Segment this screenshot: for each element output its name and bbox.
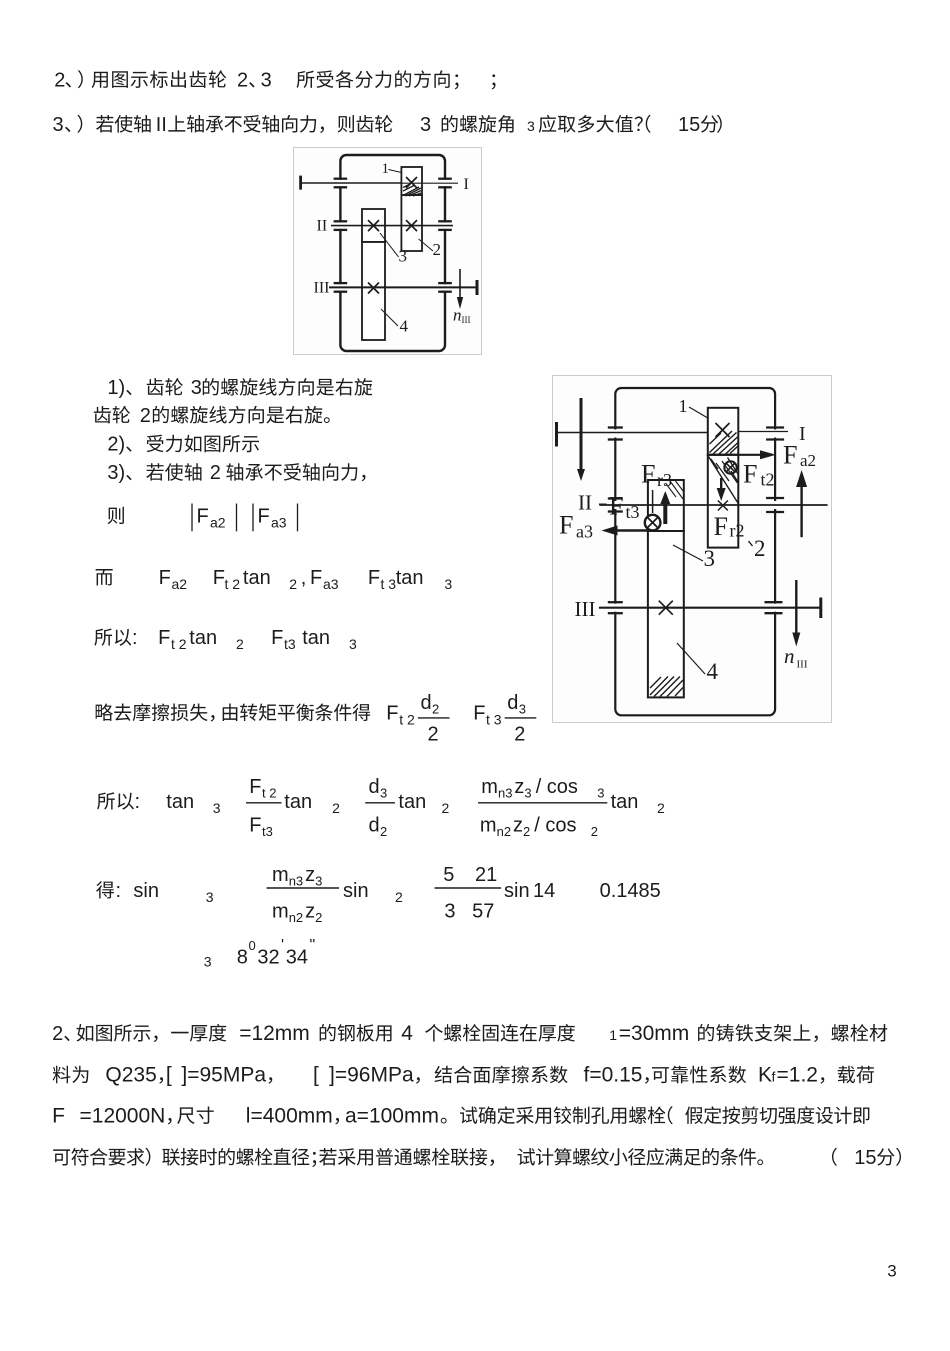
svg-text:3: 3 (349, 636, 357, 652)
svg-text:": " (310, 937, 316, 954)
shaft III right end bar (diagram 1) (476, 280, 479, 295)
bearing shaft I left (diagram 1) (334, 178, 348, 180)
svg-text:tan: tan (243, 567, 271, 589)
gear 2 shear diagonal (diagram 2) (709, 457, 739, 504)
gear 1 hatching (403, 187, 419, 196)
svg-text:2: 2 (140, 405, 151, 427)
svg-text:[: [ (313, 1064, 319, 1087)
shaft II (diagram 2) (600, 504, 828, 506)
svg-text:a2: a2 (210, 515, 226, 531)
gear 3 cross mark (368, 220, 379, 231)
svg-text:3: 3 (444, 901, 455, 923)
svg-text:]=95MPa: ]=95MPa (181, 1064, 266, 1087)
svg-text:3: 3 (597, 786, 604, 801)
svg-text:F: F (258, 506, 270, 528)
svg-text:III: III (462, 315, 471, 325)
svg-text:I: I (799, 423, 806, 445)
svg-text:2: 2 (380, 824, 387, 839)
svg-text:F: F (310, 567, 322, 589)
svg-text:F: F (386, 703, 398, 725)
text line: question 2) (54, 69, 65, 91)
gear 1 hatching (diagram 2) (710, 431, 733, 453)
gear 1 (diagram 1) (401, 167, 422, 195)
svg-text:4: 4 (400, 317, 409, 336)
svg-text:r2: r2 (730, 521, 745, 541)
svg-text:3: 3 (53, 114, 64, 136)
text: answer 2) line (107, 434, 131, 456)
bearing shaft II left (diagram 1) (334, 220, 348, 222)
svg-text:0.1485: 0.1485 (600, 880, 661, 902)
gear 4 hatching (diagram 2) (650, 677, 668, 696)
svg-text:t2: t2 (761, 470, 775, 490)
svg-text:z: z (513, 814, 523, 836)
svg-text:m: m (481, 776, 498, 798)
svg-text:2: 2 (754, 536, 766, 561)
svg-text:34: 34 (286, 946, 308, 968)
svg-text:F: F (213, 567, 225, 589)
svg-text:/ cos: / cos (534, 814, 576, 836)
svg-text:2: 2 (210, 462, 221, 484)
svg-text:d: d (369, 814, 380, 836)
svg-text:3: 3 (204, 954, 212, 970)
svg-text:f: f (772, 1069, 776, 1085)
svg-text:2: 2 (395, 889, 403, 905)
svg-text:t3: t3 (284, 636, 296, 652)
svg-text:2: 2 (289, 576, 297, 592)
svg-text:n: n (784, 644, 795, 668)
svg-text:t3: t3 (626, 502, 640, 522)
svg-text:=12000N: =12000N (80, 1104, 166, 1127)
axial force arrow Fa2 (diagram 2) (708, 454, 772, 456)
svg-text:=30mm: =30mm (619, 1022, 690, 1045)
gearbox housing (diagram 2) (615, 388, 775, 715)
svg-text:8: 8 (237, 946, 248, 968)
svg-text:2: 2 (332, 800, 340, 816)
svg-text:1: 1 (382, 161, 390, 177)
svg-text:1: 1 (609, 1027, 617, 1043)
input force arrow on shaft I (diagram 2) (580, 398, 583, 470)
svg-text:3: 3 (704, 546, 716, 571)
svg-text:z: z (305, 864, 315, 886)
svg-text:I: I (464, 176, 469, 193)
svg-text:4: 4 (707, 659, 719, 684)
svg-text:F: F (271, 627, 283, 649)
gear 4 cross mark (diagram 2) (659, 601, 673, 615)
svg-text:3): 3) (107, 462, 125, 484)
gear 1 cross mark (406, 177, 417, 188)
svg-text:tan: tan (398, 791, 426, 813)
svg-text:F: F (159, 567, 171, 589)
svg-text:3: 3 (399, 247, 408, 266)
svg-text:II: II (317, 218, 328, 235)
svg-text:a2: a2 (800, 451, 816, 470)
svg-text:3: 3 (380, 786, 387, 801)
svg-text:32: 32 (257, 946, 279, 968)
svg-text:F: F (783, 440, 797, 469)
svg-text:t 2: t 2 (225, 576, 241, 592)
output rotation arrow down (diagram 2) (795, 580, 797, 633)
shaft I left end bar (diagram 2) (555, 422, 558, 447)
label Ft3 with dash (diagram 2) (599, 504, 607, 506)
svg-text:3: 3 (315, 874, 322, 889)
text line: question 3) (53, 114, 64, 136)
text: answer 3) line (107, 462, 131, 484)
svg-text:tan: tan (166, 791, 194, 813)
bearing shaft III right (diagram 2) (765, 601, 783, 603)
svg-text:F: F (609, 492, 623, 521)
text: answer continuation line (94, 406, 130, 423)
svg-text:tan: tan (302, 627, 330, 649)
gear 3 (diagram 1) (362, 209, 385, 242)
svg-text:1: 1 (679, 396, 688, 416)
svg-text:III: III (575, 597, 596, 621)
svg-text:III: III (797, 659, 808, 671)
svg-text:a=100mm: a=100mm (345, 1104, 439, 1127)
svg-text:21: 21 (475, 864, 497, 886)
label 4 leader (diagram 1) (381, 309, 398, 326)
text: problem 2 line 2 (53, 1066, 89, 1083)
svg-text:F: F (249, 814, 261, 836)
svg-text:F: F (743, 459, 757, 488)
svg-text:F: F (641, 459, 655, 488)
svg-text:2: 2 (52, 1023, 63, 1045)
bearing shaft III left (diagram 2) (608, 601, 623, 603)
svg-text:15: 15 (678, 114, 700, 136)
text: problem 2 line 1 (52, 1023, 226, 1045)
svg-text:F: F (52, 1104, 65, 1127)
text: problem 2 line 3 (52, 1104, 65, 1127)
shaft I (diagram 2) (557, 432, 708, 434)
svg-text:z: z (305, 901, 315, 923)
bearing shaft I right (diagram 2) (766, 426, 784, 428)
svg-text:,: , (301, 567, 307, 589)
svg-text:n2: n2 (497, 824, 511, 839)
label 2 leader (diagram 1) (419, 239, 433, 251)
shaft I left end bar (diagram 1) (299, 176, 302, 190)
tangential force symbol Ft3, circle-cross (diagram 2) (645, 515, 661, 531)
formula: sin b3 = ... = 0.1485 (96, 881, 114, 898)
bearing shaft III left (diagram 1) (334, 282, 348, 284)
shaft III (diagram 1) (329, 286, 477, 288)
svg-text:tan: tan (396, 567, 424, 589)
svg-text:II: II (578, 491, 592, 515)
bearing shaft III right (diagram 1) (438, 282, 452, 284)
label 1 leader (diagram 2) (689, 407, 708, 418)
svg-text:57: 57 (472, 901, 494, 923)
svg-text:m: m (272, 864, 289, 886)
svg-text:tan: tan (611, 791, 639, 813)
svg-text:l=400mm: l=400mm (246, 1104, 333, 1127)
svg-text::: : (116, 880, 122, 902)
formula: Fa2 = Ft2 tan b2, Fa3 = Ft3 tan b3 (96, 569, 113, 585)
gearbox housing (diagram 1) (340, 155, 445, 351)
svg-text:r3: r3 (657, 470, 672, 490)
svg-text:F: F (368, 567, 380, 589)
svg-text:2: 2 (442, 800, 450, 816)
bearing shaft II left (diagram 2) (608, 497, 623, 499)
svg-text:2: 2 (236, 636, 244, 652)
svg-text:sin: sin (343, 880, 369, 902)
svg-text:t 3: t 3 (486, 712, 502, 728)
gear 1 cross mark (diagram 2) (716, 423, 730, 437)
gear 4 cross mark (368, 283, 379, 294)
gear 3 (diagram 2) (648, 480, 684, 531)
bearing shaft I right (diagram 1) (438, 178, 452, 180)
svg-text:F: F (559, 511, 573, 540)
svg-text:III: III (314, 280, 330, 297)
svg-text:=1.2: =1.2 (777, 1064, 818, 1087)
gear 2 small cross at shaft II (diagram 2) (718, 501, 728, 511)
svg-text:m: m (480, 814, 497, 836)
bearing shaft II right (diagram 2) (766, 497, 784, 499)
label 3 leader (diagram 2) (673, 545, 703, 561)
shaft I (diagram 1) (301, 182, 402, 184)
svg-text:/ cos: / cos (536, 776, 578, 798)
svg-text:3: 3 (420, 114, 431, 136)
svg-text::: : (132, 627, 138, 649)
svg-text:3: 3 (519, 702, 526, 717)
svg-text:': ' (281, 937, 284, 954)
svg-text:[: [ (166, 1064, 172, 1087)
svg-text:3: 3 (213, 800, 221, 816)
svg-text:a3: a3 (323, 576, 339, 592)
label 3 leader (diagram 1) (380, 233, 399, 257)
svg-text:d: d (421, 692, 432, 714)
svg-text:a3: a3 (271, 515, 287, 531)
svg-text:2: 2 (514, 724, 525, 746)
svg-text:a3: a3 (576, 522, 593, 542)
formula: Ft2 tan b2 = Ft3 tan b3 (94, 628, 131, 645)
svg-text:t3: t3 (262, 824, 273, 839)
label 2 (diagram 2) (749, 541, 753, 546)
svg-text:]=96MPa: ]=96MPa (329, 1064, 414, 1087)
svg-text:2: 2 (657, 800, 665, 816)
gear 3 hatching (diagram 2) (670, 481, 683, 499)
svg-text:0: 0 (249, 938, 256, 953)
axial force arrow Fa3 left (diagram 2) (614, 529, 648, 531)
svg-text:4: 4 (401, 1022, 413, 1045)
svg-text:3: 3 (887, 1261, 896, 1280)
svg-text:3: 3 (524, 786, 531, 801)
gear 2 (diagram 1) (401, 195, 422, 251)
gear 2 (diagram 2) (708, 455, 739, 548)
svg-text:f=0.15: f=0.15 (584, 1064, 643, 1087)
svg-text:1): 1) (107, 377, 125, 399)
svg-text:F: F (249, 776, 261, 798)
svg-text:2: 2 (591, 824, 598, 839)
svg-text:F: F (197, 506, 209, 528)
svg-text:2): 2) (107, 434, 125, 456)
formula: tan b3 = (Ft2/Ft3) tan b2 ... (97, 792, 134, 809)
svg-text::: : (135, 791, 141, 813)
reaction arrow up at right bearing (diagram 2) (800, 486, 802, 537)
svg-text:sin: sin (504, 880, 530, 902)
radial force arrow Fr3 up (diagram 2) (663, 502, 667, 524)
tangential force symbol Ft2, circle-cross into page (diagram 2) (724, 461, 736, 473)
svg-text:t 3: t 3 (381, 576, 397, 592)
label 1 leader (diagram 1) (389, 170, 402, 173)
svg-text:sin: sin (133, 880, 159, 902)
svg-text:d: d (507, 692, 518, 714)
radial force arrow Fr2 (diagram 2) (720, 478, 722, 488)
bearing shaft II right (diagram 1) (438, 220, 452, 222)
svg-text:n3: n3 (289, 874, 303, 889)
radial force line above circle (diagram 2) (652, 490, 654, 513)
svg-text:Q235: Q235 (105, 1064, 156, 1087)
svg-text:14: 14 (533, 880, 555, 902)
svg-text:=12mm: =12mm (239, 1022, 310, 1045)
formula: |Fa2| = |Fa3| (108, 507, 124, 524)
svg-text:2: 2 (428, 724, 439, 746)
formula: torque balance Ft2 d2/2 = Ft3 d3/2 (96, 703, 215, 721)
text: problem 2 line 4 (53, 1148, 316, 1167)
svg-text:2: 2 (432, 702, 439, 717)
svg-text:3: 3 (444, 576, 452, 592)
svg-text:t 2: t 2 (171, 636, 187, 652)
bearing shaft I left (diagram 2) (608, 426, 623, 428)
gear 2 cross mark (406, 220, 417, 231)
svg-text:3: 3 (527, 118, 535, 134)
shaft III right end bar (diagram 2) (819, 598, 822, 619)
shaft II (diagram 1) (331, 225, 453, 227)
svg-text:a2: a2 (172, 576, 188, 592)
text: answer 1) line (107, 377, 131, 399)
gear 2 hatching (diagram 2) (722, 461, 738, 483)
gear 1 (diagram 2) (708, 408, 739, 455)
svg-text:3: 3 (206, 889, 214, 905)
svg-text:m: m (272, 901, 289, 923)
svg-text:K: K (758, 1064, 772, 1087)
svg-text:5: 5 (443, 864, 454, 886)
svg-text:2: 2 (315, 910, 322, 925)
svg-text:t 2: t 2 (262, 786, 276, 801)
svg-text:F: F (473, 703, 485, 725)
svg-text:z: z (514, 776, 524, 798)
svg-text:F: F (158, 627, 170, 649)
svg-text:t 2: t 2 (399, 712, 415, 728)
label 4 leader (diagram 2) (677, 643, 705, 674)
svg-text:3: 3 (191, 377, 202, 399)
svg-text:tan: tan (189, 627, 217, 649)
svg-text:3: 3 (261, 69, 272, 91)
svg-text:2: 2 (237, 69, 248, 91)
gear 4 (diagram 1) (362, 242, 385, 340)
svg-text:2: 2 (523, 824, 530, 839)
svg-text:n3: n3 (498, 786, 512, 801)
svg-text:n: n (453, 306, 462, 325)
gear 4 (diagram 2) (648, 531, 684, 697)
svg-text:2: 2 (54, 69, 65, 91)
svg-text:F: F (714, 512, 728, 541)
output speed arrow nIII (diagram 1) (459, 269, 461, 299)
shaft III (diagram 2) (599, 607, 821, 609)
svg-text:d: d (369, 776, 380, 798)
svg-text:n2: n2 (289, 910, 303, 925)
svg-text:2: 2 (433, 240, 442, 259)
svg-text:tan: tan (284, 791, 312, 813)
svg-text:15: 15 (854, 1147, 876, 1169)
